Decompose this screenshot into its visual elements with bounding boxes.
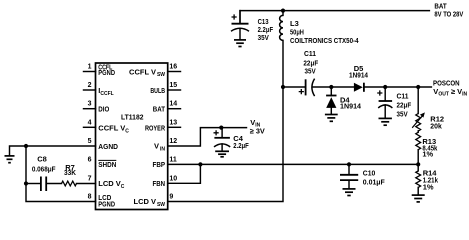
svg-text:≥ 3V: ≥ 3V [250,126,265,135]
svg-text:15: 15 [169,82,177,89]
svg-text:LT1182: LT1182 [121,113,144,122]
svg-text:C10: C10 [363,169,376,178]
svg-text:8V TO 28V: 8V TO 28V [434,10,463,19]
svg-text:C8: C8 [37,155,47,164]
svg-text:SW: SW [157,202,165,208]
svg-text:BULB: BULB [150,86,165,95]
svg-text:COILTRONICS CTX50-4: COILTRONICS CTX50-4 [290,36,359,45]
svg-text:PGND: PGND [98,70,115,77]
svg-text:11: 11 [169,156,177,163]
svg-text:C11: C11 [397,91,409,100]
svg-text:20k: 20k [430,122,442,131]
svg-text:22μF: 22μF [397,101,412,110]
svg-text:ROYER: ROYER [145,123,165,132]
svg-text:0.01μF: 0.01μF [363,178,385,187]
svg-text:35V: 35V [305,67,316,76]
svg-text:1%: 1% [422,150,433,159]
svg-text:10: 10 [169,175,177,182]
svg-text:SW: SW [157,72,165,78]
svg-text:DIO: DIO [98,105,109,114]
svg-text:2: 2 [88,82,92,89]
svg-text:7: 7 [88,175,92,182]
svg-text:5: 5 [88,138,92,145]
svg-text:35V: 35V [397,109,408,118]
svg-text:L3: L3 [290,19,299,28]
svg-text:13: 13 [169,119,177,126]
svg-text:1N914: 1N914 [340,101,362,110]
svg-text:SHDN: SHDN [98,160,116,169]
svg-text:FBN: FBN [153,179,166,188]
svg-text:12: 12 [169,138,177,145]
svg-text:BAT: BAT [153,105,166,114]
svg-text:CCFL V: CCFL V [129,67,156,76]
svg-text:0.068μF: 0.068μF [32,164,56,173]
svg-text:9: 9 [169,194,173,201]
svg-text:33K: 33K [64,168,77,177]
svg-text:IN: IN [160,146,165,152]
svg-text:3: 3 [88,101,92,108]
svg-text:1: 1 [88,64,92,71]
svg-text:6: 6 [88,156,92,163]
svg-text:1N914: 1N914 [349,71,369,80]
svg-text:FBP: FBP [153,160,166,169]
svg-text:AGND: AGND [98,142,118,151]
svg-text:1%: 1% [423,183,434,192]
svg-text:16: 16 [169,64,177,71]
svg-text:PGND: PGND [98,202,115,209]
svg-text:V: V [154,142,159,151]
svg-text:2.2μF: 2.2μF [233,141,249,150]
svg-text:4: 4 [88,119,92,126]
svg-text:14: 14 [169,101,177,108]
svg-text:LCD V: LCD V [134,197,157,206]
svg-text:8: 8 [88,194,92,201]
svg-text:C11: C11 [304,49,316,58]
svg-text:35V: 35V [258,33,269,42]
